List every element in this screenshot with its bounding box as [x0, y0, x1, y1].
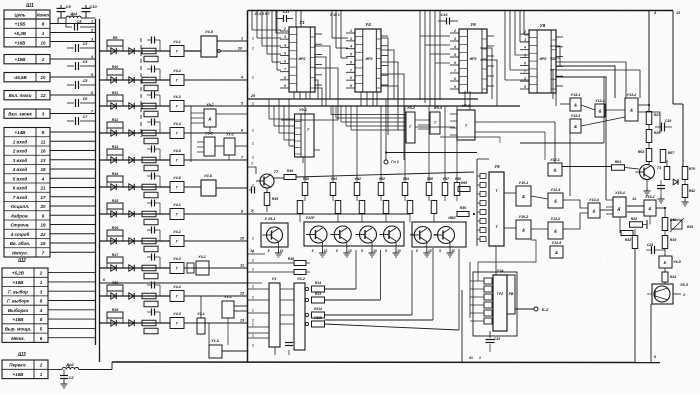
svg-text:14: 14 — [632, 197, 636, 201]
svg-text:R36: R36 — [460, 206, 468, 210]
svg-text:R42: R42 — [689, 189, 696, 193]
svg-text:&: & — [553, 167, 556, 172]
svg-text:У4-4: У4-4 — [173, 285, 181, 289]
svg-text:У 25-1: У 25-1 — [265, 217, 276, 221]
svg-text:1: 1 — [252, 37, 254, 41]
svg-text:У4-4: У4-4 — [173, 122, 181, 126]
svg-text:Др1: Др1 — [70, 12, 78, 16]
svg-text:8: 8 — [284, 76, 286, 80]
svg-text:&: & — [554, 198, 557, 203]
svg-text:1: 1 — [241, 37, 243, 41]
svg-text:R15: R15 — [112, 199, 120, 203]
svg-text:ИР2: ИР2 — [299, 57, 306, 61]
svg-text:7: 7 — [454, 69, 456, 73]
svg-text:4 вход: 4 вход — [12, 167, 28, 172]
svg-text:8: 8 — [524, 77, 526, 81]
svg-text:R67: R67 — [668, 151, 676, 155]
svg-text:Б-2: Б-2 — [542, 307, 549, 312]
svg-text:У1-3: У1-3 — [211, 339, 219, 343]
svg-text:-16,5В: -16,5В — [13, 75, 27, 80]
svg-text:У4-3: У4-3 — [173, 95, 181, 99]
svg-text:R18: R18 — [303, 177, 309, 181]
svg-text:5: 5 — [385, 249, 387, 253]
svg-text:У13-3: У13-3 — [571, 114, 581, 118]
svg-text:Кадров.: Кадров. — [11, 213, 29, 218]
svg-text:Ш1: Ш1 — [26, 3, 34, 9]
svg-text:5: 5 — [439, 249, 441, 253]
svg-text:У1-2: У1-2 — [226, 133, 234, 137]
svg-text:&: & — [630, 107, 633, 112]
svg-text:R56: R56 — [427, 177, 433, 181]
svg-text:У15-4: У15-4 — [615, 191, 625, 195]
svg-text:8: 8 — [350, 76, 352, 80]
svg-text:2: 2 — [349, 29, 352, 33]
svg-text:19: 19 — [40, 223, 46, 228]
svg-text:Др2: Др2 — [65, 362, 74, 367]
svg-text:R66: R66 — [461, 181, 467, 185]
svg-text:16: 16 — [40, 149, 46, 154]
svg-text:12: 12 — [40, 93, 46, 98]
svg-text:У4-5: У4-5 — [205, 30, 214, 34]
svg-text:У12-4: У12-4 — [595, 99, 605, 103]
svg-text:У12-2: У12-2 — [551, 217, 561, 221]
svg-text:R17: R17 — [112, 253, 120, 257]
svg-text:1: 1 — [252, 184, 254, 188]
svg-text:Б: Б — [664, 261, 667, 265]
svg-text:9: 9 — [350, 84, 352, 88]
svg-text:У4-2: У4-2 — [173, 69, 181, 73]
svg-text:У13-1: У13-1 — [571, 93, 581, 97]
svg-text:У4: У4 — [365, 22, 371, 27]
svg-text:4: 4 — [39, 308, 43, 313]
svg-text:Гн 1: Гн 1 — [391, 160, 399, 164]
svg-text:&: & — [522, 227, 525, 232]
svg-text:1: 1 — [252, 47, 254, 51]
svg-text:У1-1: У1-1 — [224, 295, 232, 299]
svg-text:2: 2 — [39, 363, 43, 368]
svg-text:R16: R16 — [287, 169, 295, 173]
svg-text:У6-3: У6-3 — [680, 283, 689, 287]
svg-text:6 вход: 6 вход — [13, 186, 28, 191]
svg-text:+14В: +14В — [15, 130, 27, 135]
svg-text:7: 7 — [284, 68, 286, 72]
svg-text:+16В: +16В — [13, 317, 25, 322]
svg-text:2: 2 — [283, 27, 286, 31]
svg-text:С24: С24 — [647, 243, 653, 247]
svg-text:Вкл. звонк: Вкл. звонк — [8, 112, 32, 117]
svg-text:5: 5 — [284, 51, 286, 55]
svg-text:5: 5 — [312, 249, 314, 253]
svg-text:R115: R115 — [314, 316, 322, 320]
svg-text:R19: R19 — [112, 308, 119, 312]
svg-text:У9-2: У9-2 — [407, 106, 416, 110]
svg-text:R70: R70 — [689, 167, 696, 171]
svg-text:3: 3 — [454, 37, 456, 41]
svg-text:Ш2: Ш2 — [18, 258, 26, 264]
svg-text:+5,2В: +5,2В — [12, 271, 25, 276]
svg-text:1: 1 — [252, 237, 254, 241]
svg-text:Д: Д — [208, 117, 212, 121]
svg-text:У4-1: У4-1 — [173, 203, 181, 207]
svg-text:Г. выбор: Г. выбор — [8, 288, 28, 294]
svg-text:R13: R13 — [112, 145, 119, 149]
svg-text:У12-3: У12-3 — [551, 188, 561, 192]
svg-text:15: 15 — [40, 241, 46, 246]
svg-text:R38: R38 — [288, 257, 294, 261]
svg-text:1: 1 — [252, 250, 254, 254]
svg-text:С23: С23 — [494, 337, 500, 341]
svg-text:У3-2: У3-2 — [297, 277, 306, 281]
svg-text:10: 10 — [40, 75, 46, 80]
svg-text:У12Р: У12Р — [306, 216, 315, 220]
svg-text:1: 1 — [252, 142, 254, 146]
svg-text:6: 6 — [454, 61, 456, 65]
svg-text:+15В: +15В — [15, 57, 27, 62]
svg-text:&: & — [574, 124, 577, 129]
svg-text:У6-5: У6-5 — [673, 260, 682, 264]
svg-text:&: & — [574, 102, 577, 107]
svg-text:У9-4: У9-4 — [434, 106, 443, 110]
svg-text:13: 13 — [40, 158, 46, 163]
svg-text:R14: R14 — [315, 281, 321, 285]
svg-text:5: 5 — [336, 249, 338, 253]
svg-text:20: 20 — [39, 204, 46, 209]
svg-text:ИР2: ИР2 — [540, 57, 547, 61]
svg-text:&: & — [554, 228, 557, 233]
svg-text:9: 9 — [284, 84, 286, 88]
svg-text:У6: У6 — [470, 22, 476, 27]
svg-text:Г. выборк: Г. выборк — [7, 298, 30, 304]
svg-text:22: 22 — [39, 232, 46, 237]
svg-text:Импул.: Импул. — [12, 250, 28, 255]
svg-text:9: 9 — [524, 85, 526, 89]
svg-text:1: 1 — [91, 20, 93, 24]
svg-text:R52: R52 — [379, 177, 385, 181]
svg-text:R19: R19 — [670, 238, 677, 242]
svg-text:1: 1 — [252, 259, 254, 263]
svg-text:С16: С16 — [441, 13, 449, 17]
svg-text:С19: С19 — [665, 119, 672, 123]
svg-text:17: 17 — [40, 195, 46, 200]
svg-text:1: 1 — [252, 285, 254, 289]
svg-text:R9: R9 — [113, 36, 118, 40]
svg-text:У4-5: У4-5 — [173, 149, 182, 153]
svg-text:3: 3 — [284, 35, 286, 39]
svg-text:5: 5 — [350, 53, 352, 57]
svg-text:У10-2: У10-2 — [519, 215, 529, 219]
svg-text:Конт: Конт — [37, 12, 49, 17]
svg-text:4 строб: 4 строб — [10, 231, 30, 237]
svg-text:Вв. абон.: Вв. абон. — [10, 240, 30, 246]
svg-text:С10: С10 — [89, 4, 97, 9]
svg-text:Вкл. токи: Вкл. токи — [9, 93, 32, 98]
svg-text:3: 3 — [524, 38, 526, 42]
svg-text:1: 1 — [252, 268, 254, 272]
svg-text:21: 21 — [39, 186, 46, 191]
svg-text:У8: У8 — [540, 23, 546, 28]
svg-text:ИР2: ИР2 — [470, 57, 477, 61]
svg-text:4: 4 — [453, 45, 456, 49]
svg-text:Перекл.: Перекл. — [9, 363, 26, 368]
svg-text:Строчн.: Строчн. — [10, 223, 29, 228]
svg-text:10: 10 — [373, 249, 377, 253]
svg-text:У4-1: У4-1 — [173, 40, 181, 44]
svg-text:1: 1 — [252, 210, 254, 214]
svg-text:У4-3: У4-3 — [173, 257, 181, 261]
svg-text:1: 1 — [252, 334, 254, 338]
svg-text:1: 1 — [252, 296, 254, 300]
svg-text:R27: R27 — [654, 113, 662, 117]
svg-text:4: 4 — [283, 43, 286, 47]
svg-text:R63: R63 — [638, 150, 645, 154]
svg-text:2: 2 — [523, 30, 526, 34]
svg-text:+16В: +16В — [15, 40, 27, 45]
svg-text:Д: Д — [617, 206, 621, 211]
svg-text:С2: С2 — [68, 375, 74, 380]
svg-text:ИВ2: ИВ2 — [448, 216, 455, 220]
svg-text:7: 7 — [350, 68, 352, 72]
svg-text:5: 5 — [268, 249, 270, 253]
svg-text:5: 5 — [454, 53, 456, 57]
svg-text:10: 10 — [397, 249, 401, 253]
svg-text:РВ: РВ — [509, 292, 514, 296]
svg-text:Выр. мощн.: Выр. мощн. — [5, 326, 32, 331]
svg-text:20: 20 — [237, 47, 243, 51]
svg-text:8: 8 — [454, 77, 456, 81]
svg-text:1: 1 — [252, 102, 254, 106]
svg-text:4: 4 — [41, 176, 45, 181]
svg-text:R43: R43 — [687, 225, 693, 229]
svg-text:6: 6 — [284, 60, 286, 64]
svg-text:У13-4: У13-4 — [589, 198, 599, 202]
svg-text:1: 1 — [252, 309, 254, 313]
svg-text:4: 4 — [523, 46, 526, 50]
svg-text:С11: С11 — [283, 10, 290, 14]
svg-text:У14: У14 — [497, 269, 505, 273]
svg-text:25: 25 — [250, 94, 256, 98]
svg-text:У1: У1 — [299, 20, 305, 25]
svg-text:2: 2 — [39, 271, 43, 276]
svg-text:Цепь: Цепь — [14, 12, 26, 17]
svg-text:8 10 1: 8 10 1 — [330, 13, 340, 17]
svg-text:+15В: +15В — [13, 372, 25, 377]
svg-text:R42: R42 — [355, 177, 361, 181]
svg-text:У13-2: У13-2 — [627, 93, 637, 97]
svg-text:С9: С9 — [65, 4, 71, 9]
svg-text:У1: У1 — [272, 277, 277, 281]
svg-text:1: 1 — [479, 356, 481, 360]
svg-text:У4-5: У4-5 — [173, 312, 182, 316]
svg-text:У9-1: У9-1 — [299, 108, 307, 112]
svg-text:10: 10 — [324, 249, 328, 253]
svg-text:4: 4 — [653, 11, 656, 15]
svg-text:11: 11 — [41, 139, 46, 144]
svg-text:1: 1 — [252, 344, 254, 348]
svg-text:+16В: +16В — [13, 280, 25, 285]
svg-text:10: 10 — [280, 249, 284, 253]
svg-text:У13-5: У13-5 — [552, 241, 563, 245]
svg-text:+5,2В: +5,2В — [14, 31, 27, 36]
svg-text:Метк.: Метк. — [11, 336, 25, 341]
svg-text:4: 4 — [349, 45, 352, 49]
svg-text:R22: R22 — [631, 217, 638, 221]
svg-text:1: 1 — [252, 156, 254, 160]
svg-text:R16: R16 — [112, 226, 120, 230]
svg-text:Выборка: Выборка — [8, 307, 29, 313]
svg-text:R24: R24 — [670, 275, 676, 279]
svg-text:1: 1 — [252, 323, 254, 327]
svg-text:&: & — [555, 250, 558, 255]
svg-text:10: 10 — [348, 249, 352, 253]
svg-text:ИР2: ИР2 — [366, 57, 373, 61]
svg-text:10: 10 — [428, 249, 432, 253]
svg-text:R10: R10 — [112, 65, 119, 69]
svg-text:У9-7: У9-7 — [206, 103, 215, 107]
svg-text:&: & — [598, 108, 601, 113]
svg-text:Осцилл.: Осцилл. — [11, 204, 30, 209]
svg-text:1: 1 — [252, 76, 254, 80]
svg-text:2: 2 — [41, 57, 45, 62]
svg-text:R32: R32 — [625, 238, 632, 242]
svg-text:5: 5 — [524, 54, 526, 58]
svg-text:7 вход: 7 вход — [13, 195, 28, 200]
svg-text:9: 9 — [454, 85, 456, 89]
svg-text:С8: С8 — [76, 19, 82, 24]
svg-text:У16-1: У16-1 — [645, 195, 655, 199]
svg-text:11: 11 — [240, 264, 244, 268]
svg-text:3 вход: 3 вход — [13, 158, 28, 163]
svg-text:У9-2: У9-2 — [205, 132, 213, 136]
svg-text:У4-2: У4-2 — [173, 230, 181, 234]
svg-text:У10-1: У10-1 — [519, 181, 529, 185]
svg-text:R11: R11 — [112, 91, 118, 95]
svg-text:18: 18 — [40, 167, 46, 172]
svg-text:13: 13 — [676, 11, 680, 15]
svg-text:У4-1: У4-1 — [198, 255, 206, 259]
svg-text:Ш3: Ш3 — [18, 352, 26, 358]
svg-text:R114: R114 — [314, 307, 322, 311]
svg-text:R12: R12 — [112, 118, 119, 122]
svg-text:У4-6: У4-6 — [173, 176, 182, 180]
svg-text:У7-2: У7-2 — [462, 104, 471, 108]
svg-text:5 вход: 5 вход — [13, 176, 28, 181]
svg-text:У5: У5 — [494, 164, 500, 169]
svg-text:&: & — [592, 208, 595, 213]
svg-text:+15Б: +15Б — [15, 22, 27, 27]
svg-text:10: 10 — [451, 249, 455, 253]
svg-text:R35: R35 — [272, 197, 280, 201]
svg-text:2 вход: 2 вход — [12, 149, 28, 154]
svg-text:R14: R14 — [112, 172, 119, 176]
svg-text:R57: R57 — [443, 177, 449, 181]
svg-text:10: 10 — [40, 40, 46, 45]
svg-text:61: 61 — [469, 356, 473, 360]
svg-text:5: 5 — [361, 249, 363, 253]
svg-text:R54: R54 — [403, 177, 409, 181]
svg-text:1: 1 — [252, 129, 254, 133]
svg-text:6: 6 — [350, 60, 352, 64]
svg-text:5: 5 — [416, 249, 418, 253]
svg-text:1 вход: 1 вход — [13, 139, 28, 144]
svg-text:R61: R61 — [615, 160, 622, 164]
svg-text:6: 6 — [524, 61, 526, 65]
svg-text:У12-1: У12-1 — [550, 158, 560, 162]
svg-text:3: 3 — [350, 37, 352, 41]
svg-text:R13: R13 — [315, 292, 321, 296]
svg-text:R29: R29 — [654, 131, 661, 135]
svg-text:3: 3 — [683, 293, 685, 297]
svg-text:&: & — [648, 206, 651, 211]
svg-text:R44: R44 — [331, 177, 337, 181]
svg-text:2: 2 — [453, 29, 456, 33]
svg-text:&: & — [522, 194, 525, 199]
svg-text:ГР2: ГР2 — [497, 292, 503, 296]
svg-text:У4-6: У4-6 — [204, 174, 213, 178]
svg-text:20 4 3 9 7: 20 4 3 9 7 — [253, 12, 270, 16]
